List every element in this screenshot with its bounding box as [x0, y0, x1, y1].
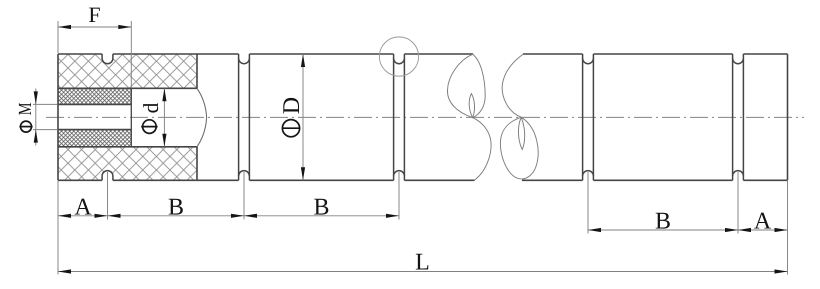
notch groove 1 bottom [102, 171, 113, 181]
svg-text:L: L [415, 250, 430, 276]
threaded hole bottom [58, 129, 131, 131]
break symbol right [500, 54, 538, 179]
bore top line [58, 87, 197, 89]
dimension B3 [588, 228, 601, 232]
section boundary lower [196, 147, 198, 181]
dimension A right [738, 228, 751, 232]
dimension L [58, 271, 788, 273]
dimension B2 [244, 214, 257, 218]
extension lines bottom left row [58, 172, 399, 275]
ring groove at 738 [733, 54, 744, 180]
dimension PhiM [33, 89, 58, 146]
top edge segments [58, 53, 788, 55]
threaded hole top [58, 103, 131, 105]
bore bottom line [58, 146, 197, 148]
break symbol left: lower curve [473, 118, 491, 181]
svg-text:A: A [74, 195, 92, 221]
break symbol right: inner leaf [518, 117, 524, 149]
svg-text:D: D [279, 97, 305, 114]
right end edge [787, 54, 789, 180]
dense thread hatch lower [58, 130, 131, 147]
bottom edge segments [58, 179, 788, 181]
dimension B1 [108, 214, 121, 218]
coarse hatch bottom band [58, 147, 197, 181]
dimension F [58, 21, 131, 88]
dimension A left [58, 214, 71, 218]
svg-text:F: F [88, 2, 100, 27]
dimension Phid [163, 88, 165, 147]
left end edge [57, 54, 59, 180]
break symbol left: inner leaf [469, 94, 474, 118]
svg-text:B: B [313, 195, 329, 221]
break symbol right: teardrop [500, 117, 538, 179]
thread end shoulder [130, 88, 132, 147]
ring groove at 399 [394, 54, 405, 180]
extension lines bottom right row [588, 172, 788, 275]
svg-text:B: B [168, 195, 184, 221]
break symbol left: teardrop [447, 54, 491, 180]
svg-text:B: B [655, 209, 671, 235]
section boundary upper [196, 54, 198, 88]
dimension PhiD [302, 54, 304, 180]
dense thread hatch upper [58, 88, 131, 104]
svg-text:M: M [16, 103, 36, 116]
ring groove at 588 [583, 54, 594, 180]
coarse hatch top band [58, 54, 197, 88]
bore end nose [197, 88, 207, 147]
ring groove at 244 [239, 54, 250, 180]
detail circle [379, 37, 418, 76]
shaft outline left sectioned block [58, 54, 197, 180]
centerline [46, 116, 804, 118]
svg-text:A: A [754, 209, 772, 235]
svg-text:d: d [139, 102, 163, 113]
notch groove 1 top (white cut in hatch) [102, 54, 113, 64]
break symbol right: upper curve [502, 54, 523, 117]
